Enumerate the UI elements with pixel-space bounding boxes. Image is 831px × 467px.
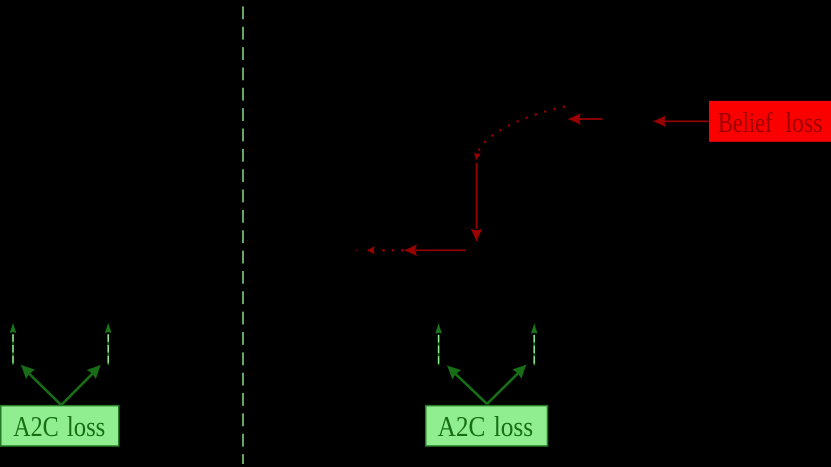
left A2C V arrow (right branch) [61,360,105,405]
svg-text:A2C: A2C [13,411,59,443]
arrow from belief loss box to hidden node (red, left) [653,116,709,128]
center group: dashed gradient arrow up (left) [435,323,442,365]
dashed separator line (vertical, light green) [242,6,244,464]
dotted red tail with small left arrowhead [356,246,404,254]
second red arrow (middle, pointing left) [568,113,603,125]
svg-text:loss: loss [67,411,105,443]
left group: dashed gradient arrow up (right) [105,323,112,365]
svg-text:Belief: Belief [718,108,773,139]
center A2C V arrow (right branch) [487,360,531,404]
center A2C V arrow (left branch) [442,361,487,404]
svg-text:A2C: A2C [438,411,486,443]
left A2C V arrow (left branch) [16,360,61,405]
center group: dashed gradient arrow up (right) [531,323,538,365]
left group: dashed gradient arrow up (left) [10,323,17,365]
dotted red gradient curve with down arrowhead [473,107,565,161]
center A2C loss box [426,406,548,446]
svg-text:loss: loss [494,411,534,443]
left A2C loss box [1,406,119,446]
svg-text:loss: loss [785,108,822,139]
horizontal red arrow pointing left [404,245,466,257]
vertical red arrow pointing down [471,163,483,242]
belief loss box [709,101,831,142]
